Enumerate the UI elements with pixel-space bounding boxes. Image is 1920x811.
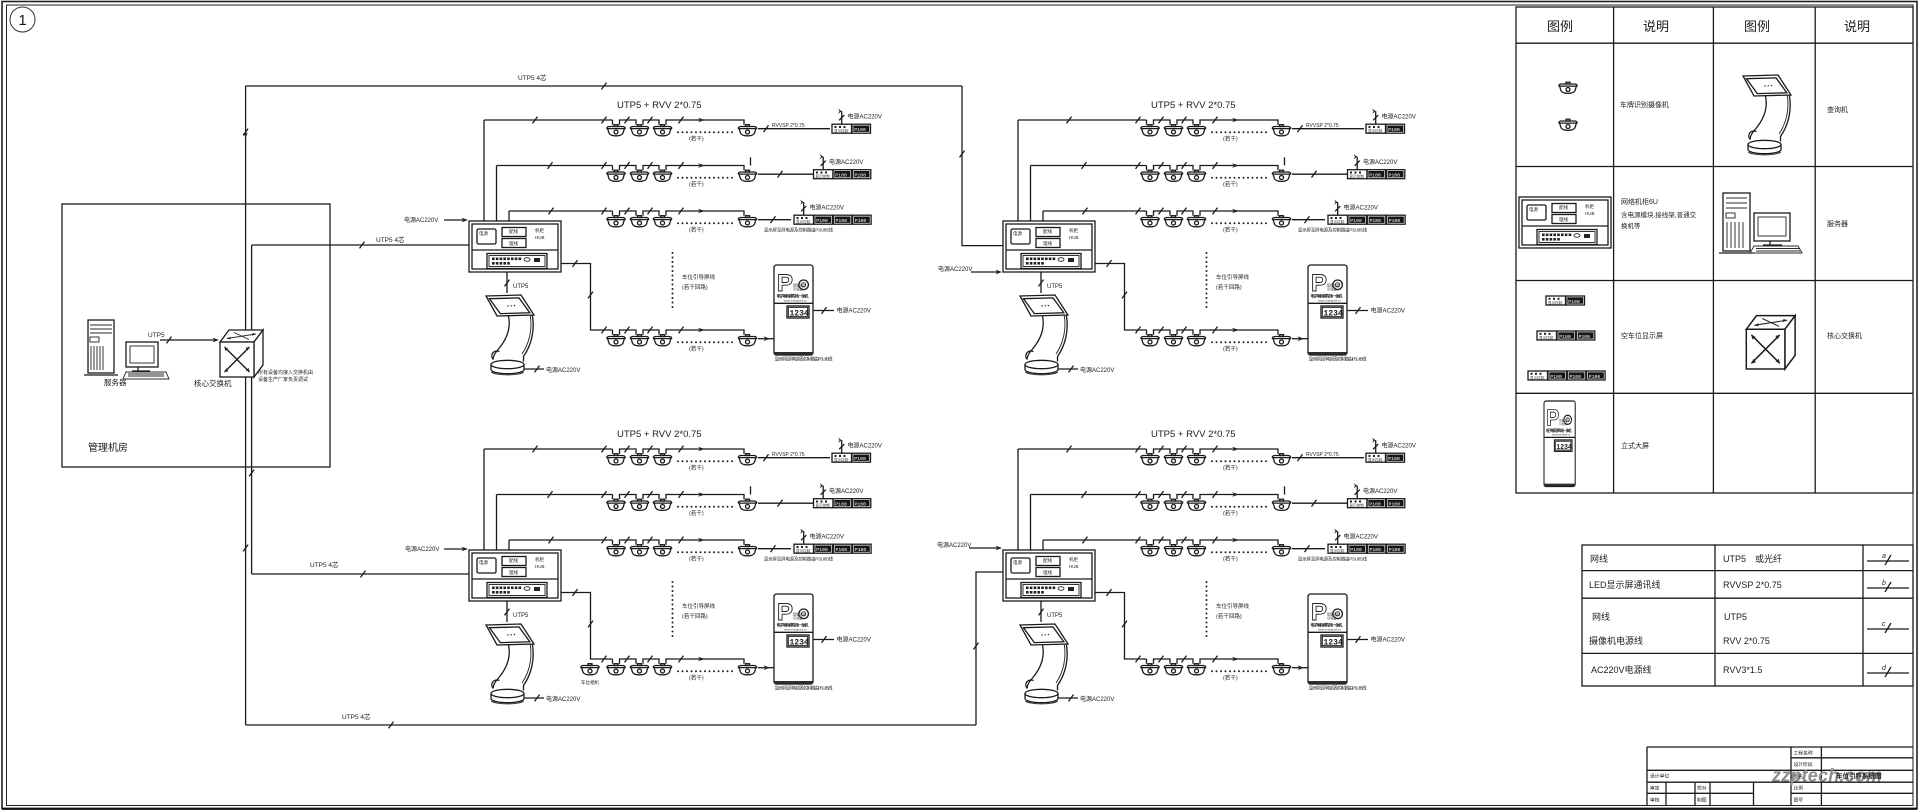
- sheet number circle 1: [10, 7, 35, 32]
- svg-text:a: a: [1882, 553, 1886, 560]
- svg-text:查询机: 查询机: [1827, 105, 1848, 114]
- legend cube switch icon: [1746, 316, 1795, 369]
- svg-text:服务器: 服务器: [104, 377, 127, 387]
- cluster C extra dome camera: [581, 664, 600, 675]
- svg-text:管理机房: 管理机房: [88, 441, 128, 454]
- svg-text:LED显示屏通讯线: LED显示屏通讯线: [1589, 579, 1661, 590]
- legend cabinet icon: [1519, 197, 1611, 248]
- svg-text:图例: 图例: [1744, 19, 1770, 34]
- branch vertical wire to lower-left cluster: [251, 245, 253, 574]
- svg-text:核心交换机: 核心交换机: [194, 378, 232, 388]
- cluster A (top-left): [469, 100, 882, 375]
- svg-text:c: c: [1882, 621, 1886, 628]
- wire server to switch with UTP5 label: [160, 339, 217, 341]
- svg-text:车位引导系统图: 车位引导系统图: [1836, 771, 1882, 780]
- svg-text:AC220V电源线: AC220V电源线: [1591, 664, 1652, 675]
- svg-text:电源AC220V: 电源AC220V: [404, 216, 438, 224]
- wire specification table: [1582, 545, 1913, 686]
- svg-text:UTP5 4芯: UTP5 4芯: [518, 73, 547, 82]
- svg-text:审定: 审定: [1650, 785, 1660, 792]
- svg-text:空车位显示屏: 空车位显示屏: [1621, 331, 1663, 340]
- svg-text:说明: 说明: [1844, 19, 1870, 34]
- backbone vertical wire (top bus to bottom bus): [245, 86, 247, 725]
- svg-text:网线: 网线: [1592, 611, 1610, 622]
- svg-text:UTP5: UTP5: [1724, 612, 1747, 622]
- svg-text:网络机柜6U: 网络机柜6U: [1621, 197, 1658, 206]
- management room box 管理机房: [62, 204, 330, 467]
- svg-text:UTP5 4芯: UTP5 4芯: [376, 235, 405, 244]
- cluster A data feed wire: [252, 244, 469, 246]
- svg-text:含电源模块,接线架,普通交: 含电源模块,接线架,普通交: [1621, 210, 1697, 219]
- legend LED bar 2: [1537, 331, 1557, 340]
- legend LED bar 1: [1546, 296, 1566, 305]
- svg-text:车位相机: 车位相机: [581, 679, 599, 686]
- cluster B data feed wire: [962, 86, 1003, 246]
- legend kiosk icon: [1743, 75, 1791, 155]
- border bottom thick edge: [2, 808, 1917, 810]
- svg-text:电源AC220V: 电源AC220V: [937, 541, 971, 549]
- svg-text:图名: 图名: [1794, 773, 1804, 780]
- svg-text:换机等: 换机等: [1621, 221, 1641, 230]
- svg-text:RVV3*1.5: RVV3*1.5: [1723, 665, 1762, 675]
- svg-text:审核: 审核: [1650, 797, 1660, 804]
- svg-text:d: d: [1882, 665, 1887, 672]
- svg-text:1: 1: [18, 12, 26, 29]
- legend LED bar 3: [1528, 371, 1548, 380]
- cluster C data feed wire: [252, 573, 470, 575]
- cluster C (bottom-left): [469, 429, 882, 704]
- bottom bus wire UTP5: [246, 724, 976, 726]
- top bus wire UTP5: [246, 85, 962, 87]
- svg-text:制图: 制图: [1697, 797, 1707, 804]
- title block: [1647, 747, 1913, 806]
- svg-text:RVVSP 2*0.75: RVVSP 2*0.75: [1723, 580, 1782, 590]
- svg-text:服务器: 服务器: [1827, 219, 1848, 228]
- svg-text:比例: 比例: [1794, 785, 1804, 792]
- svg-text:UTP5: UTP5: [148, 332, 165, 339]
- svg-text:车牌识别摄像机: 车牌识别摄像机: [1620, 100, 1669, 109]
- svg-text:电源AC220V: 电源AC220V: [938, 265, 972, 273]
- svg-text:UTP5 4芯: UTP5 4芯: [310, 560, 339, 569]
- svg-text:UTP5 或光纤: UTP5 或光纤: [1723, 553, 1782, 564]
- svg-text:校对: 校对: [1697, 785, 1707, 792]
- svg-text:说明: 说明: [1643, 19, 1669, 34]
- svg-text:图例: 图例: [1547, 19, 1573, 34]
- legend server icon: [1719, 193, 1802, 253]
- cluster B (top-right): [1003, 100, 1416, 375]
- core switch cube 核心交换机: [220, 330, 263, 377]
- legend dome camera icons: [1559, 82, 1578, 93]
- svg-text:立式大屏: 立式大屏: [1621, 441, 1649, 450]
- svg-text:核心交换机: 核心交换机: [1827, 331, 1862, 340]
- svg-text:设计单位: 设计单位: [1650, 773, 1669, 780]
- svg-text:b: b: [1882, 580, 1886, 587]
- svg-text:工程名称: 工程名称: [1794, 750, 1813, 757]
- svg-text:摄像机电源线: 摄像机电源线: [1589, 635, 1643, 646]
- svg-text:设计阶段: 设计阶段: [1794, 761, 1813, 768]
- cluster D data feed wire: [976, 572, 1003, 725]
- svg-text:所有设备均接入交换机由: 所有设备均接入交换机由: [258, 369, 313, 376]
- svg-text:电源AC220V: 电源AC220V: [405, 545, 439, 553]
- svg-text:RVV 2*0.75: RVV 2*0.75: [1723, 636, 1770, 646]
- cluster D (bottom-right): [1003, 429, 1416, 704]
- svg-text:图号: 图号: [1794, 798, 1804, 804]
- server workstation (tower + monitor + keyboard): [84, 320, 169, 379]
- legend table 图例/说明: [1516, 7, 1913, 493]
- svg-text:网线: 网线: [1590, 553, 1608, 564]
- svg-text:设备生产厂家负责调试: 设备生产厂家负责调试: [258, 376, 308, 383]
- legend totem icon: [1544, 401, 1575, 487]
- svg-text:UTP5 4芯: UTP5 4芯: [342, 712, 371, 721]
